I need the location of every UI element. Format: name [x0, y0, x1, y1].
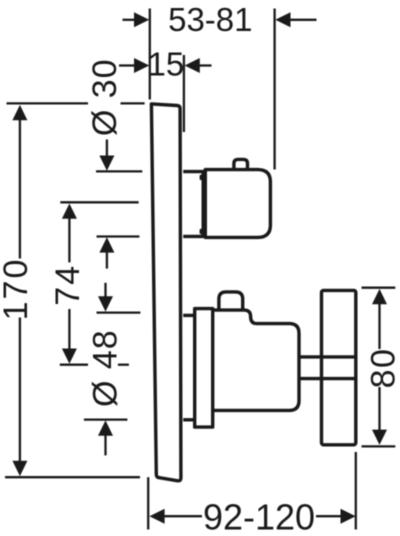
wall plate (escutcheon, side view)	[151, 104, 181, 481]
extension line 92-120 right (handle edge)	[355, 452, 357, 530]
lower valve cap button	[219, 292, 243, 310]
extension tick 74 bottom right segment (y364)	[118, 364, 129, 366]
arrowhead 92-120 right	[341, 509, 356, 524]
cross handle bar	[322, 290, 356, 444]
extension tick Ø30 bottom (y236)	[97, 235, 140, 237]
arrowhead 80 down	[372, 430, 387, 445]
extension tick 74 bottom left segment (y364)	[60, 364, 88, 366]
dim 15 left arrow tail	[119, 64, 135, 66]
fillet blob lower	[200, 229, 205, 235]
svg-text:Ø 30: Ø 30	[86, 58, 124, 136]
extension line 92-120 left (wall plane bottom)	[147, 477, 149, 529]
svg-text:80: 80	[364, 348, 400, 389]
handle stem upper line	[299, 355, 356, 358]
extension tick 80 bottom (y446)	[362, 445, 396, 447]
arrowhead 80 up	[372, 289, 387, 304]
upper valve body (thermostat cartridge)	[205, 170, 270, 238]
lower valve body (volume control)	[213, 310, 299, 410]
arrowhead 170 down	[12, 461, 27, 476]
arrowhead 92-120 left	[149, 509, 164, 524]
extension tick Ø48 top (y312)	[97, 311, 141, 313]
dim 53-81 left arrow tail	[123, 19, 136, 21]
fillet blob upper	[200, 175, 205, 181]
dim 74 line upper	[68, 218, 70, 263]
extension tick top y103 right segment	[121, 102, 145, 104]
dim 92-120 right line	[316, 515, 342, 517]
dim Ø30 lower arrow tail	[106, 252, 108, 269]
dim Ø30 line above arrow	[106, 140, 108, 157]
upper valve top tab	[234, 159, 248, 170]
dim Ø48 upper arrow tail	[104, 283, 106, 298]
svg-text:Ø 48: Ø 48	[87, 329, 125, 407]
upper valve step sleeve	[183, 172, 203, 237]
arrowhead 53-81 right	[275, 12, 290, 27]
arrowhead 74 down	[62, 349, 77, 364]
extension tick top of 170 and Ø30 (y103) left segment	[7, 102, 89, 104]
arrowhead Ø30 up	[99, 237, 114, 252]
extension tick 74 top (y202)	[60, 201, 138, 203]
arrowhead 74 up	[62, 204, 77, 219]
svg-text:53-81: 53-81	[168, 1, 252, 38]
svg-text:74: 74	[49, 264, 87, 306]
dim 92-120 left line	[164, 515, 202, 517]
lower valve flange	[195, 309, 213, 428]
dim Ø48 lower arrow tail	[104, 435, 106, 456]
arrowhead 53-81 left	[134, 12, 149, 27]
svg-text:170: 170	[0, 258, 35, 321]
arrowhead Ø30 down	[99, 156, 114, 171]
extension tick 80 top (y287)	[362, 287, 396, 289]
dim 80 line upper	[378, 303, 380, 349]
extension line right of 15 (plate face)	[183, 55, 185, 132]
dim 15 right arrow tail	[199, 64, 211, 66]
extension tick bottom of 170 (y477)	[5, 476, 140, 478]
arrowhead 170 up	[12, 105, 27, 120]
extension line left of 53-81 and 15 (wall plane)	[149, 9, 151, 100]
dim 53-81 right arrow tail	[290, 19, 317, 21]
arrowhead 15 left	[134, 58, 149, 73]
dim 170 line upper	[19, 119, 21, 258]
lower valve strip sleeve top edge	[183, 314, 195, 317]
dim 74 line lower	[68, 309, 70, 350]
dim 80 line lower	[378, 387, 380, 431]
extension line right of 53-81	[273, 9, 275, 170]
arrowhead Ø48 down	[98, 296, 113, 311]
lower valve strip sleeve bottom edge	[183, 418, 195, 421]
svg-text:92-120: 92-120	[203, 497, 315, 536]
dim 170 line lower	[19, 318, 21, 462]
arrowhead 15 right	[185, 58, 200, 73]
arrowhead Ø48 up	[98, 420, 113, 435]
extension tick Ø48 bottom (y419)	[84, 418, 128, 420]
handle stem lower line	[299, 377, 356, 380]
svg-text:15: 15	[148, 45, 185, 82]
extension tick Ø30 top (y171)	[96, 170, 142, 172]
